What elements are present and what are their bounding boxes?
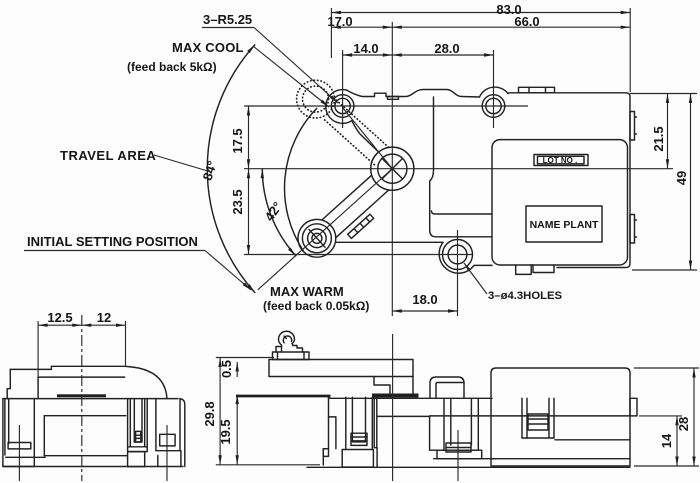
- side view hook tabs: [276, 346, 303, 353]
- lever hub: [371, 147, 414, 190]
- center line hub horizontal: [244, 168, 673, 170]
- dimension 12.5: [38, 310, 82, 377]
- side view thick ledge line: [236, 395, 331, 398]
- front view bottom edge: [3, 466, 183, 468]
- front view right foot: [156, 399, 185, 467]
- side view hook curl: [283, 336, 291, 343]
- mounting hole top-left boss: [326, 90, 352, 124]
- svg-text:MAX WARM: MAX WARM: [270, 284, 344, 299]
- svg-text:MAX COOL: MAX COOL: [172, 40, 244, 55]
- lever arm cool position dotted: [297, 80, 389, 165]
- LOT NO box: [534, 155, 588, 166]
- front view slab: [57, 394, 106, 397]
- svg-text:49: 49: [674, 171, 689, 185]
- label MAX COOL: [172, 40, 329, 107]
- mounting hole top-right: [482, 95, 505, 118]
- side view left unit: [323, 397, 492, 467]
- bottom hole boss: [439, 242, 492, 273]
- cover lid rounded rectangle: [492, 140, 628, 265]
- dimension 14: [639, 416, 682, 466]
- side view bottom line: [307, 466, 630, 468]
- svg-text:42°: 42°: [262, 199, 286, 224]
- side view plate step: [374, 377, 413, 394]
- svg-text:18.0: 18.0: [412, 292, 437, 307]
- side view big right block: [491, 368, 630, 466]
- side view pocket: [522, 398, 554, 438]
- front view center line: [81, 315, 83, 481]
- svg-text:14.0: 14.0: [353, 41, 378, 56]
- svg-text:29.8: 29.8: [202, 401, 217, 426]
- center line bottom hole horizontal: [244, 254, 472, 256]
- svg-text:17.0: 17.0: [327, 14, 352, 29]
- svg-text:3–R5.25: 3–R5.25: [203, 12, 252, 27]
- label INITIAL SETTING POSITION: [24, 234, 251, 290]
- svg-text:19.5: 19.5: [218, 419, 233, 444]
- label 3-dia4.3HOLES: [464, 263, 563, 302]
- side view block internal lines: [430, 416, 630, 459]
- dimension 83.0: [331, 2, 630, 92]
- side view plate: [269, 360, 413, 377]
- dimension 19.5: [218, 395, 237, 465]
- side view hook block: [273, 352, 310, 360]
- housing step line: [432, 211, 493, 214]
- svg-text:28: 28: [676, 417, 691, 431]
- side view mid shelf line: [377, 415, 430, 417]
- svg-text:0.5: 0.5: [219, 360, 234, 378]
- svg-text:21.5: 21.5: [651, 126, 666, 151]
- side view hook: [278, 331, 294, 352]
- center line hub vertical: [391, 22, 393, 316]
- dimension 29.8: [202, 358, 320, 465]
- lever axis line: [258, 169, 393, 290]
- neck below top-left boss: [352, 121, 378, 151]
- travel area arc 84deg: [207, 45, 255, 293]
- mounting hole top-left: [331, 95, 354, 118]
- dimension 18.0: [392, 262, 457, 316]
- clip tab on top edge: [519, 87, 555, 93]
- svg-text:84°: 84°: [200, 159, 220, 182]
- front view top plate: [10, 366, 167, 398]
- dimension 17.5: [230, 106, 249, 169]
- svg-text:23.5: 23.5: [230, 189, 245, 214]
- housing step contour upper: [430, 97, 492, 237]
- dimension 23.5: [230, 169, 249, 255]
- svg-text:(feed back 5kΩ): (feed back 5kΩ): [127, 60, 217, 74]
- svg-text:LOT NO .: LOT NO .: [543, 156, 578, 165]
- lever rib hatched: [348, 214, 374, 238]
- dimension 17.0: [327, 14, 392, 29]
- hub spokes: [382, 158, 403, 179]
- small slot on top edge: [388, 97, 399, 100]
- svg-text:3–ø4.3HOLES: 3–ø4.3HOLES: [488, 290, 563, 302]
- front view inner body: [44, 416, 127, 456]
- svg-text:(feed back 0.05kΩ): (feed back 0.05kΩ): [263, 299, 369, 313]
- svg-text:17.5: 17.5: [230, 128, 245, 153]
- mounting hole top-right boss: [480, 87, 509, 97]
- side view small rounded block: [430, 377, 464, 398]
- svg-text:66.0: 66.0: [514, 14, 539, 29]
- dimension 0.5: [219, 360, 237, 378]
- body bottom edge left part: [336, 241, 443, 243]
- label TRAVEL AREA: [60, 148, 211, 172]
- center line top holes: [244, 105, 528, 107]
- side view right clip: [630, 398, 637, 416]
- lever arm warm position: [298, 175, 389, 257]
- side view slab: [372, 394, 419, 398]
- label 3-R5.25: [202, 12, 338, 103]
- side view mid unit: [430, 398, 496, 458]
- dimension 49: [632, 94, 697, 271]
- lid bottom tabs: [516, 265, 532, 274]
- svg-text:INITIAL SETTING POSITION: INITIAL SETTING POSITION: [27, 234, 198, 249]
- svg-text:28.0: 28.0: [434, 41, 459, 56]
- dimension 66.0: [392, 14, 630, 29]
- dimension 28: [634, 368, 699, 466]
- dimension 14.0: [343, 41, 393, 128]
- top edge of body: [346, 90, 479, 98]
- dimension 28.0: [392, 41, 493, 128]
- side view center line hub: [392, 334, 394, 481]
- side view center line bottom hole: [457, 430, 459, 481]
- svg-text:TRAVEL AREA: TRAVEL AREA: [60, 148, 156, 163]
- 42deg arc: [262, 169, 295, 256]
- svg-text:14: 14: [659, 433, 674, 448]
- clip on right edge upper: [630, 112, 637, 141]
- radius line hole to hub: [343, 108, 393, 169]
- top edge right section: [508, 93, 630, 268]
- svg-text:NAME PLANT: NAME PLANT: [530, 219, 599, 231]
- front view axis lines bottom: [18, 425, 20, 481]
- front view left foot: [3, 399, 45, 467]
- front view band top: [3, 398, 178, 400]
- clip on right edge lower: [630, 215, 637, 244]
- svg-text:12: 12: [97, 310, 111, 325]
- dimension 21.5: [630, 94, 697, 169]
- side view left unit right wall: [374, 398, 377, 467]
- mounting hole bottom: [443, 240, 473, 270]
- body bracket arc (left plate edge): [285, 108, 317, 251]
- front view middle legs: [128, 399, 148, 467]
- svg-text:12.5: 12.5: [47, 310, 72, 325]
- NAME PLANT box: [526, 206, 602, 242]
- dimension 12: [82, 310, 126, 366]
- center line bottom hole vertical (short top): [457, 230, 459, 262]
